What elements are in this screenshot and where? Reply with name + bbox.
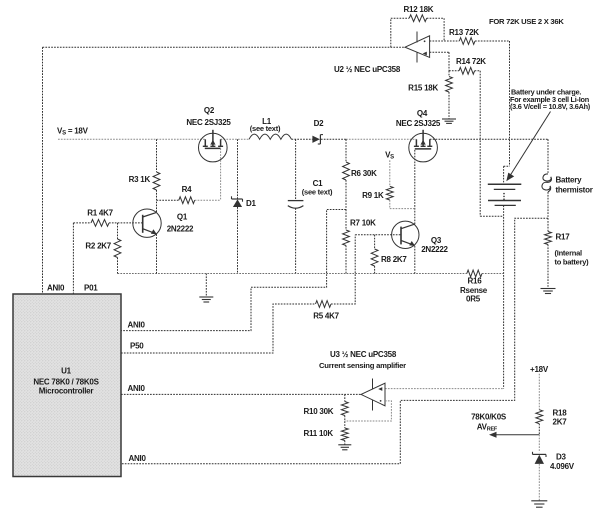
wire R12 feedback left — [391, 18, 409, 47]
svg-text:R12 18K: R12 18K — [404, 5, 434, 14]
wire rail to R3 — [156, 139, 158, 172]
wire Q3 emitter to ground rail — [414, 246, 416, 274]
label U1 — [61, 367, 72, 376]
resistor R18 — [536, 410, 543, 424]
op-amp U2 (1/2 NEC uPC358) — [405, 32, 430, 63]
resistor R2 — [114, 239, 121, 258]
svg-text:R8 2K7: R8 2K7 — [381, 255, 407, 264]
svg-text:U2 ½ NEC uPC358: U2 ½ NEC uPC358 — [334, 65, 401, 74]
svg-text:2N2222: 2N2222 — [167, 225, 194, 234]
battery thermistor — [542, 174, 552, 192]
transistor Q2 (NEC 2SJ325 P-MOSFET) — [199, 130, 228, 162]
ground (R15) — [442, 119, 456, 123]
svg-text:ANI0: ANI0 — [129, 454, 147, 463]
label Rsense — [460, 286, 488, 295]
label C1 — [313, 179, 324, 188]
wire Q3 base — [355, 234, 401, 236]
diode D3 (zener 4.096V) — [533, 452, 547, 464]
resistor R10 — [341, 402, 348, 416]
svg-text:(see text): (see text) — [250, 124, 281, 133]
label R9 1K — [362, 191, 384, 200]
wire R14 wires — [449, 70, 480, 72]
label R15 18K — [408, 84, 438, 93]
svg-text:NEC 78K0 / 78K0S: NEC 78K0 / 78K0S — [33, 378, 99, 387]
resistor R3 — [153, 172, 160, 190]
svg-text:R15 18K: R15 18K — [408, 84, 438, 93]
svg-text:VS: VS — [385, 151, 394, 161]
diode D1 (Schottky) — [232, 196, 243, 207]
resistor R15 — [446, 77, 453, 93]
label Vs (R9) — [385, 151, 394, 161]
wire thermistor to R17 — [547, 192, 549, 232]
label Battery under charge. — [511, 88, 581, 97]
svg-text:R17: R17 — [556, 233, 571, 242]
svg-text:R6 30K: R6 30K — [351, 169, 377, 178]
svg-text:+18V: +18V — [530, 365, 549, 374]
label Q1 — [177, 213, 188, 222]
wire U2 output to ANI0 (top border) — [43, 47, 406, 294]
wire R11 to ground — [344, 441, 346, 445]
wire rail to D1 — [237, 139, 239, 199]
resistor R16 (Rsense) — [467, 270, 482, 277]
svg-text:(Internal: (Internal — [555, 249, 583, 258]
label pin ANI0 (top) — [47, 284, 65, 293]
wire Q1 emitter to ground rail — [156, 234, 158, 273]
label to battery) — [555, 258, 590, 267]
label Current sensing amplifier — [319, 361, 406, 370]
label Q2 — [204, 106, 215, 115]
svg-text:ANI0: ANI0 — [47, 284, 65, 293]
wire R10-R11 node — [344, 416, 346, 429]
label R18 — [553, 409, 568, 418]
wire R14 to battery minus — [480, 71, 503, 216]
resistor R8 — [371, 249, 378, 266]
diode D2 (Schottky) — [312, 135, 323, 144]
label C1 (see text) — [302, 188, 333, 197]
svg-text:78K0/K0S: 78K0/K0S — [471, 413, 507, 422]
label 2K7 — [553, 418, 568, 427]
label FOR 72K USE 2 X 36K — [489, 17, 564, 26]
label R4 — [182, 185, 193, 194]
wire R15 top — [448, 71, 450, 77]
label R11 10K — [304, 429, 334, 438]
label R3 1K — [129, 175, 151, 184]
label D3 — [556, 453, 567, 462]
resistor R12 — [409, 15, 427, 22]
label R10 30K — [304, 407, 334, 416]
svg-text:Q3: Q3 — [431, 236, 442, 245]
wire R13 to battery plus — [475, 41, 510, 166]
capacitor C1 — [288, 201, 304, 209]
wire U2 plus input — [430, 52, 449, 71]
wire divider to ANI0 pin1 — [121, 210, 346, 331]
wire Q2 gate to R4 — [195, 148, 221, 200]
label R8 2K7 — [381, 255, 407, 264]
label D1 — [246, 199, 257, 208]
label pin P50 — [130, 342, 144, 351]
svg-text:AVREF: AVREF — [477, 423, 498, 433]
label pin ANI0 (3) — [128, 384, 146, 393]
resistor R1 — [91, 220, 109, 227]
label pin P01 — [84, 284, 98, 293]
wire +18V to R18 — [538, 374, 540, 410]
svg-text:R13 72K: R13 72K — [449, 28, 479, 37]
svg-text:U3 ½ NEC uPC358: U3 ½ NEC uPC358 — [330, 350, 397, 359]
resistor R14 — [459, 67, 475, 74]
svg-text:Q1: Q1 — [177, 213, 188, 222]
svg-text:P01: P01 — [84, 284, 98, 293]
label 78K0/K0S — [471, 413, 507, 422]
inductor L1 — [249, 134, 291, 139]
svg-text:R16: R16 — [468, 277, 483, 286]
transistor Q4 (NEC 2SJ325 P-MOSFET) — [409, 130, 438, 162]
wire U3 output to ANI0 pin3 — [121, 393, 361, 395]
wire node P01 — [72, 223, 74, 294]
wire P01 node to R1 — [73, 222, 91, 224]
ground (R17) — [541, 289, 556, 294]
label R5 4K7 — [313, 312, 339, 321]
wire node to D3 — [538, 435, 540, 453]
label pin ANI0 (1) — [128, 321, 146, 330]
wire R3 node to R4 — [157, 199, 179, 201]
svg-text:thermistor: thermistor — [556, 186, 593, 195]
svg-text:R10 30K: R10 30K — [304, 407, 334, 416]
svg-text:U1: U1 — [61, 367, 72, 376]
wire C1 to ground rail — [295, 208, 297, 273]
label 4.096V — [550, 462, 575, 471]
svg-text:ANI0: ANI0 — [128, 384, 146, 393]
label NEC 2SJ325 (Q4) — [396, 119, 441, 128]
svg-text:D3: D3 — [556, 453, 567, 462]
label NEC 78K0 / 78K0S — [33, 378, 99, 387]
svg-text:R11 10K: R11 10K — [304, 429, 334, 438]
svg-text:2K7: 2K7 — [553, 418, 568, 427]
wire R10 top — [344, 394, 346, 401]
label 2N2222 (Q3) — [421, 245, 448, 254]
svg-text:R14 72K: R14 72K — [456, 57, 486, 66]
wire rail to C1 — [295, 139, 297, 201]
wire R2 to ground rail — [117, 258, 119, 274]
label 0R5 — [466, 295, 481, 304]
wire R6 to node — [345, 180, 347, 210]
ground (R11) — [338, 445, 351, 450]
wire R1 to Q1 base — [109, 222, 143, 224]
wire R17 to ground — [547, 245, 549, 289]
label R1 4K7 — [87, 209, 113, 218]
label (Internal — [555, 249, 583, 258]
wire base node to R8 — [374, 235, 376, 249]
wire thermistor tap to ANI0 pin4 — [121, 218, 548, 464]
svg-text:R1 4K7: R1 4K7 — [87, 209, 113, 218]
label For example 3 cell Li-Ion — [510, 95, 589, 104]
label R14 72K — [456, 57, 486, 66]
resistor R11 — [341, 428, 348, 441]
wire R12 feedback right — [427, 18, 444, 41]
label 3.6 V/cell — [510, 102, 591, 111]
svg-text:Q2: Q2 — [204, 106, 215, 115]
node R6-R7 junction — [345, 210, 347, 231]
wire Vs to R9 — [389, 160, 391, 186]
op U1 microcontroller box — [13, 294, 121, 477]
wire rail to thermistor — [547, 139, 549, 174]
wire R9 to Q4 gate line — [390, 200, 415, 209]
wire R5 to Q3 base — [331, 235, 355, 304]
label Battery (thermistor) — [556, 176, 583, 185]
transistor Q3 (2N2222 NPN) — [392, 221, 419, 248]
resistor R5 — [316, 301, 332, 308]
wire base to R2 — [117, 223, 119, 239]
svg-text:(see text): (see text) — [302, 188, 333, 197]
label R7 10K — [350, 219, 376, 228]
wire D3 to ground — [538, 464, 540, 501]
label R16 — [468, 277, 483, 286]
wire U3 minus feedback — [345, 401, 392, 421]
wire battery minus to U3 plus input — [385, 388, 504, 390]
wire D1 to ground rail — [237, 207, 239, 274]
label thermistor — [556, 186, 593, 195]
svg-text:D1: D1 — [246, 199, 257, 208]
wire rail to R6 — [345, 139, 347, 162]
label 2N2222 (Q1) — [167, 225, 194, 234]
svg-text:(3.6 V/cell = 10.8V, 3.6Ah): (3.6 V/cell = 10.8V, 3.6Ah) — [510, 102, 591, 111]
svg-text:2N2222: 2N2222 — [421, 245, 448, 254]
wire R3 to Q1 collector node — [156, 190, 158, 212]
op-amp U3 (1/2 NEC uPC358) — [361, 379, 385, 411]
svg-text:FOR 72K USE 2 X 36K: FOR 72K USE 2 X 36K — [489, 17, 564, 26]
label L1 (see text) — [250, 124, 281, 133]
battery (3-cell Li-Ion) — [488, 184, 522, 205]
svg-text:R5 4K7: R5 4K7 — [313, 312, 339, 321]
node ground rail — [118, 273, 504, 275]
label NEC 2SJ325 (Q2) — [186, 118, 231, 127]
label Q4 — [417, 109, 428, 118]
label R6 30K — [351, 169, 377, 178]
annotation arrow to battery — [506, 112, 550, 182]
svg-text:R2 2K7: R2 2K7 — [85, 242, 111, 251]
node Vs rail — [58, 138, 548, 140]
wire R8 to ground rail — [374, 266, 376, 274]
ground (main) — [199, 274, 213, 303]
label R12 18K — [404, 5, 434, 14]
label L1 — [262, 117, 272, 126]
label Vs = 18V — [57, 127, 89, 137]
svg-text:4.096V: 4.096V — [550, 462, 575, 471]
svg-text:NEC 2SJ325: NEC 2SJ325 — [186, 118, 231, 127]
svg-text:R7 10K: R7 10K — [350, 219, 376, 228]
wire R15 to ground — [448, 92, 450, 119]
svg-text:VS = 18V: VS = 18V — [57, 127, 89, 137]
wire battery minus lead — [503, 205, 505, 388]
resistor R17 — [545, 232, 552, 245]
wire Q3 collector to Q4 gate — [414, 149, 416, 224]
svg-text:R18: R18 — [553, 409, 568, 418]
svg-text:P50: P50 — [130, 342, 144, 351]
wire AVref arrow — [489, 432, 539, 438]
resistor R9 — [386, 186, 393, 200]
resistor R4 — [179, 197, 195, 204]
svg-text:NEC 2SJ325: NEC 2SJ325 — [396, 119, 441, 128]
wire P50 to R5 — [121, 304, 316, 353]
svg-text:Current sensing amplifier: Current sensing amplifier — [319, 361, 406, 370]
wire R18 to AVref node — [538, 424, 540, 435]
label AVref — [477, 423, 498, 433]
svg-text:0R5: 0R5 — [466, 295, 481, 304]
svg-text:R4: R4 — [182, 185, 193, 194]
svg-text:R3 1K: R3 1K — [129, 175, 151, 184]
wire U2 minus input — [430, 40, 460, 42]
wire battery plus lead — [504, 166, 510, 184]
resistor R6 — [343, 162, 350, 180]
svg-text:Q4: Q4 — [417, 109, 428, 118]
svg-text:R9 1K: R9 1K — [362, 191, 384, 200]
resistor R7 — [343, 230, 350, 246]
svg-text:ANI0: ANI0 — [128, 321, 146, 330]
resistor R13 — [459, 38, 475, 45]
label U3 — [330, 350, 397, 359]
label R13 72K — [449, 28, 479, 37]
wire R7 to ground rail — [345, 246, 347, 274]
label Microcontroller — [39, 387, 94, 396]
label R17 — [556, 233, 571, 242]
label +18V — [530, 365, 549, 374]
label U2 — [334, 65, 401, 74]
svg-text:Microcontroller: Microcontroller — [39, 387, 94, 396]
svg-text:to battery): to battery) — [555, 258, 590, 267]
label D2 — [314, 119, 325, 128]
label pin ANI0 (4) — [129, 454, 147, 463]
label Q3 — [431, 236, 442, 245]
ground (D3) — [531, 501, 547, 507]
svg-text:Battery: Battery — [556, 176, 583, 185]
label R2 2K7 — [85, 242, 111, 251]
svg-text:D2: D2 — [314, 119, 325, 128]
transistor Q1 (2N2222 NPN) — [133, 209, 161, 237]
